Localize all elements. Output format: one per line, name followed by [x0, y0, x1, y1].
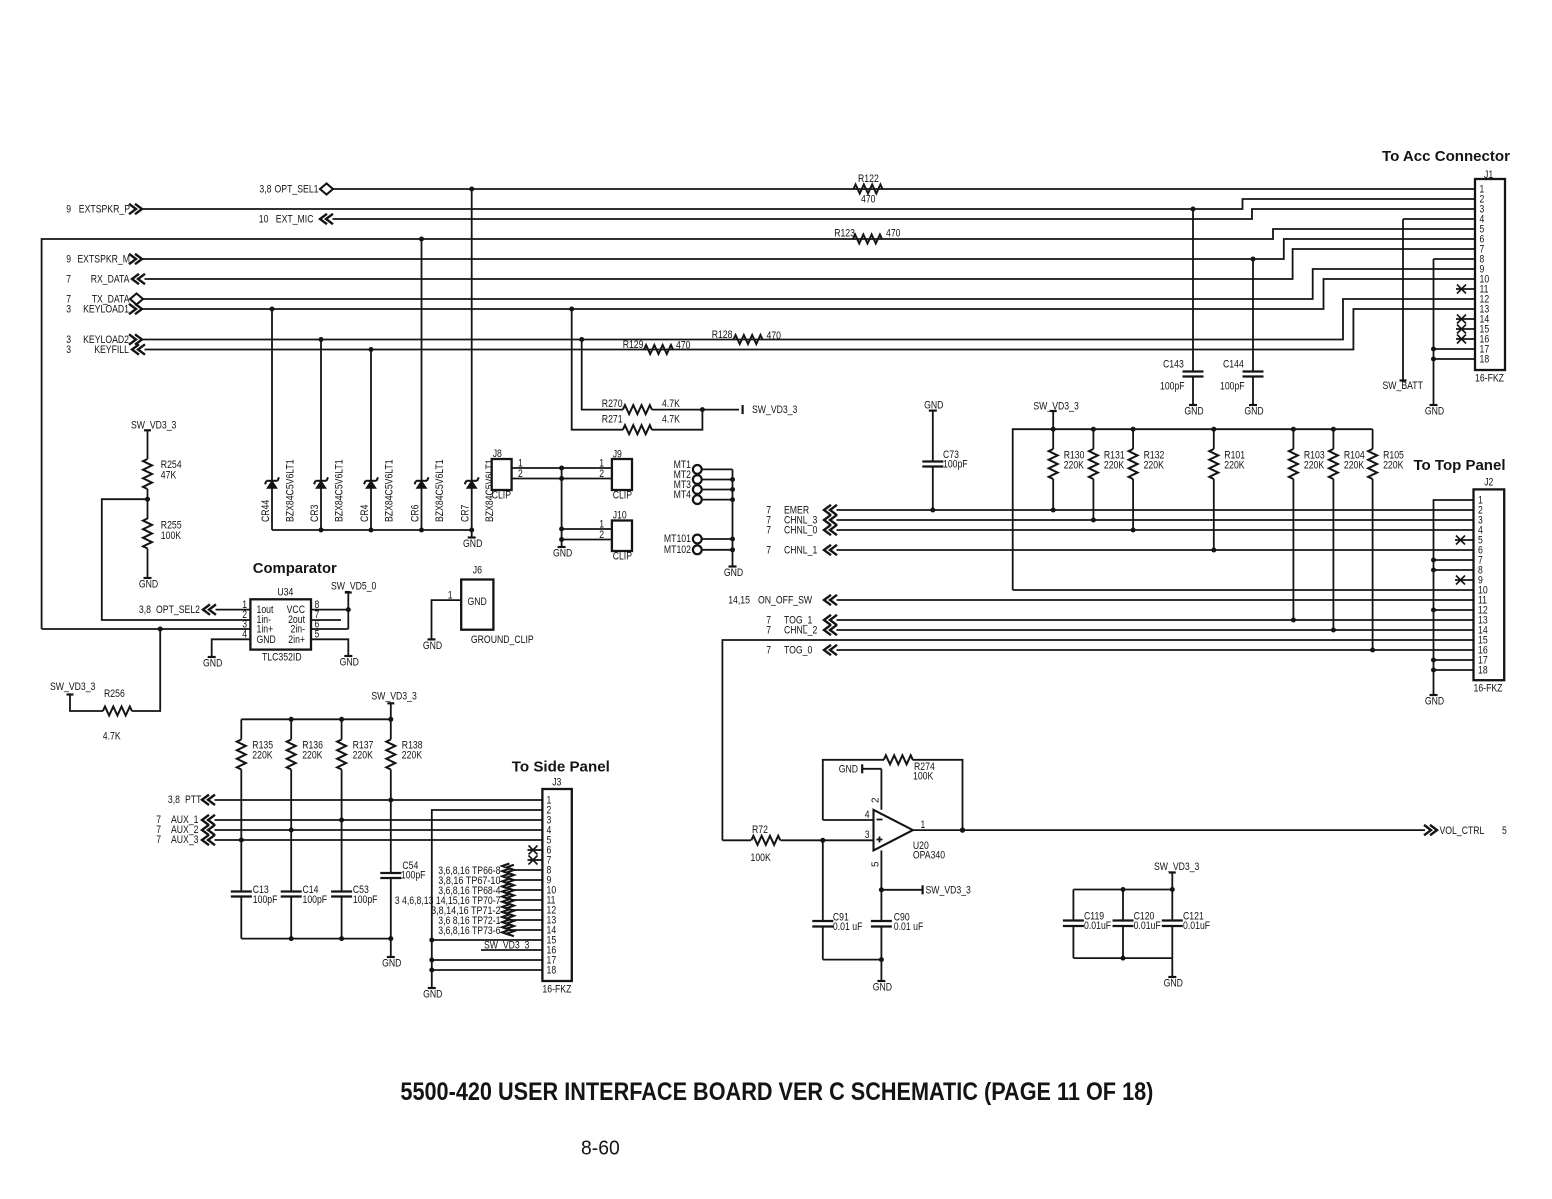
svg-text:J6: J6 — [473, 565, 482, 577]
connector J3 pins 2,15,17,18 ground rail — [432, 810, 543, 988]
svg-text:CR4: CR4 — [359, 505, 371, 522]
wire OPT_SEL2 box-route to J1 pin 5 — [42, 229, 1475, 629]
svg-text:GND: GND — [340, 657, 360, 669]
junction R131 output — [1091, 518, 1096, 523]
svg-text:100pF: 100pF — [303, 894, 328, 906]
svg-text:100pF: 100pF — [1220, 381, 1245, 393]
resistor R270 — [582, 340, 623, 410]
svg-text:220K: 220K — [1064, 460, 1084, 472]
svg-text:9: 9 — [66, 204, 71, 216]
svg-text:14,15: 14,15 — [728, 595, 750, 607]
connector J6 GROUND_CLIP — [461, 580, 493, 630]
junction MT3 — [730, 487, 735, 492]
wire C119-C121 top bus — [1073, 889, 1172, 891]
junction J2 pin 8 — [1431, 568, 1436, 573]
junction R104 output — [1331, 628, 1336, 633]
junction KEYLOAD2 / CR3 — [319, 337, 324, 342]
junction C53 bus — [339, 936, 344, 941]
wire R255 to ground — [147, 549, 149, 579]
junction EXTSPKR_M / C144 — [1251, 257, 1256, 262]
wire U20 output to VOL_CTRL — [913, 829, 1425, 831]
wire MT1 — [702, 468, 733, 470]
svg-text:220K: 220K — [1104, 460, 1124, 472]
svg-text:CR44: CR44 — [260, 500, 272, 522]
svg-text:R256: R256 — [104, 688, 125, 700]
wire OPT_SEL2 to U34 pin 1 — [216, 609, 251, 611]
connector J8 CLIP — [492, 459, 512, 490]
mount hole MT1 — [693, 465, 702, 474]
svg-text:100pF: 100pF — [401, 870, 426, 882]
wire divider tap to U34 pin 2 — [102, 499, 251, 620]
junction C14 bus — [289, 936, 294, 941]
svg-text:3: 3 — [66, 344, 71, 356]
wire AUX_2 to J3 pin 4 — [215, 829, 543, 831]
wire U34 pin 3 input — [42, 628, 251, 630]
svg-text:220K: 220K — [1224, 460, 1244, 472]
junction bus R131 — [1091, 427, 1096, 432]
svg-text:Comparator: Comparator — [253, 561, 337, 577]
svg-text:SW_VD3_3: SW_VD3_3 — [1154, 861, 1199, 873]
resistor R132 220K — [1132, 429, 1134, 449]
svg-text:EXT_MIC: EXT_MIC — [276, 214, 314, 226]
svg-text:C143: C143 — [1163, 359, 1184, 371]
wire decoupling bottom — [823, 959, 882, 961]
junction MT101 — [730, 537, 735, 542]
wire C119-C121 bottom bus — [1073, 957, 1172, 959]
ground at C144 — [1249, 404, 1257, 406]
wire U34 pin 5 to ground — [311, 639, 348, 656]
svg-text:0.01uF: 0.01uF — [1183, 920, 1211, 932]
svg-text:ON_OFF_SW: ON_OFF_SW — [758, 595, 812, 607]
svg-text:100pF: 100pF — [943, 459, 968, 471]
wire J8 pin 1 to J9 pin 1 — [512, 467, 612, 469]
svg-text:TLC352ID: TLC352ID — [262, 652, 302, 664]
svg-text:GND: GND — [724, 567, 744, 579]
svg-text:3: 3 — [865, 829, 870, 841]
junction R135 output — [239, 838, 244, 843]
junction J1 pin 18 — [1431, 357, 1436, 362]
junction OPT_SEL2 / CR6 — [419, 237, 424, 242]
junction J2 pin 18 — [1431, 668, 1436, 673]
svg-text:J2: J2 — [1484, 477, 1493, 489]
wire VOL wiper J2 pin 15 to R72 — [722, 640, 1473, 840]
svg-text:220K: 220K — [1383, 460, 1403, 472]
no-connect J2 pin 5 — [1455, 539, 1474, 541]
svg-text:47K: 47K — [161, 470, 177, 482]
svg-text:220K: 220K — [302, 750, 322, 762]
junction J2 pin 17 — [1431, 658, 1436, 663]
svg-text:0.01 uF: 0.01 uF — [894, 921, 924, 933]
junction bus R132 — [1131, 427, 1136, 432]
svg-text:GND: GND — [1425, 696, 1445, 708]
wire feedback R274 loop — [823, 760, 884, 820]
ground at J3 — [428, 987, 436, 989]
junction top bus C121 — [1170, 887, 1175, 892]
junction J3 pin 18 — [429, 968, 434, 973]
junction clip ground pin2 — [559, 476, 564, 481]
svg-text:GND: GND — [553, 548, 573, 560]
wire KEYLOAD2 to J1 pin 12 — [142, 299, 1475, 340]
svg-text:CR7: CR7 — [460, 505, 472, 522]
junction R130 output — [1051, 508, 1056, 513]
wire RX_DATA to J1 pin 7 — [145, 249, 1476, 279]
svg-text:3,6,8,16 TP73-6: 3,6,8,16 TP73-6 — [438, 925, 500, 937]
svg-text:GND: GND — [257, 634, 277, 646]
resistor R135 220K — [240, 719, 242, 739]
no-connect J1 pin 11 — [1456, 288, 1475, 290]
svg-text:7: 7 — [766, 525, 771, 537]
junction OPT_SEL1 / CR7 — [469, 187, 474, 192]
zener diode CR6 BZX84C5V6LT1 — [421, 239, 423, 530]
svg-text:J10: J10 — [613, 510, 627, 522]
svg-text:GND: GND — [1244, 406, 1264, 418]
svg-text:3,8: 3,8 — [259, 184, 271, 196]
junction J10 pin 1 — [559, 527, 564, 532]
svg-text:GND: GND — [463, 538, 483, 550]
svg-text:R271: R271 — [602, 413, 623, 425]
svg-text:R129: R129 — [623, 339, 644, 351]
svg-text:EXTSPKR_P: EXTSPKR_P — [79, 204, 130, 216]
svg-text:R270: R270 — [602, 398, 623, 410]
test point resistor squiggle column — [502, 864, 509, 935]
svg-text:R122: R122 — [858, 173, 879, 185]
svg-text:R123: R123 — [834, 228, 855, 240]
svg-text:KEYFILL: KEYFILL — [94, 344, 129, 356]
svg-text:470: 470 — [676, 340, 691, 352]
ground at J6 — [428, 638, 436, 640]
junction CR6 bus — [419, 528, 424, 533]
junction KEYLOAD2 / R270 — [579, 337, 584, 342]
svg-text:8-60: 8-60 — [581, 1138, 620, 1160]
svg-text:BZX84C5V6LT1: BZX84C5V6LT1 — [434, 459, 446, 522]
wire capacitor bottom bus — [241, 938, 390, 940]
svg-text:GND: GND — [423, 989, 443, 1001]
ground at C90/C91 — [877, 980, 885, 982]
junction J3 pin 15 — [429, 938, 434, 943]
svg-text:GND: GND — [873, 982, 893, 994]
wire MT102 — [702, 549, 733, 551]
svg-text:0.01 uF: 0.01 uF — [833, 921, 863, 933]
svg-text:J1: J1 — [1484, 169, 1493, 181]
wire diode common bus — [272, 529, 472, 531]
no-connect J3 pin 6 — [528, 849, 543, 851]
ground at C143 — [1189, 404, 1197, 406]
svg-text:220K: 220K — [1144, 460, 1164, 472]
junction J2 pin 12 — [1431, 608, 1436, 613]
connector J1 pin 4 stub / SW_BATT — [1403, 218, 1475, 220]
ground at MT rail — [729, 565, 737, 567]
svg-text:R72: R72 — [752, 824, 768, 836]
svg-text:4.7K: 4.7K — [662, 398, 680, 410]
wire CHNL_0 to J2 pin 4 — [837, 529, 1474, 531]
junction bus R137 — [339, 717, 344, 722]
junction pin5 / SW_VD3_3 tap — [879, 887, 884, 892]
no-connect J2 pin 9 — [1455, 579, 1474, 581]
svg-text:VOL_CTRL: VOL_CTRL — [1440, 825, 1485, 837]
ground at clip rail — [558, 546, 566, 548]
junction C73 / EMER — [930, 508, 935, 513]
svg-text:To Acc Connector: To Acc Connector — [1382, 149, 1510, 165]
wire J10 pin 2 — [562, 539, 612, 541]
junction bottom bus C120 — [1121, 956, 1126, 961]
svg-text:BZX84C5V6LT1: BZX84C5V6LT1 — [285, 459, 297, 522]
connector J9 CLIP — [612, 459, 632, 490]
svg-text:SW_VD5_0: SW_VD5_0 — [331, 581, 376, 593]
wire EXTSPKR_P to J1 pin 2 — [142, 199, 1475, 209]
junction U34 pin3 / R256 — [158, 627, 163, 632]
ground at C121 — [1168, 976, 1176, 978]
resistor R129 — [644, 345, 673, 354]
junction J10 pin 2 — [559, 537, 564, 542]
wire clip ground rail — [561, 468, 563, 547]
capacitor C121 — [1171, 890, 1173, 921]
op-amp U20 OPA340 — [874, 810, 913, 851]
wire PTT to J3 pin 1 — [215, 799, 543, 801]
no-connect J3 pin 7 — [528, 859, 543, 861]
svg-text:16-FKZ: 16-FKZ — [542, 984, 571, 996]
junction bus R101 — [1211, 427, 1216, 432]
svg-text:220K: 220K — [1304, 460, 1324, 472]
junction R105 output — [1370, 648, 1375, 653]
junction MT4 — [730, 497, 735, 502]
wire EMER to J2 pin 2 — [837, 509, 1474, 511]
resistor R105 220K — [1372, 429, 1374, 449]
resistor R104 220K — [1332, 429, 1334, 449]
svg-text:7: 7 — [766, 545, 771, 557]
wire U34 pin 6 — [311, 628, 348, 630]
junction R132 output — [1131, 528, 1136, 533]
svg-text:GND: GND — [839, 763, 859, 775]
svg-text:EXTSPKR_M: EXTSPKR_M — [77, 254, 130, 266]
wire CHNL_3 to J2 pin 3 — [837, 519, 1474, 521]
svg-text:SW_BATT: SW_BATT — [1383, 380, 1424, 392]
svg-text:4: 4 — [865, 809, 870, 821]
svg-text:RX_DATA: RX_DATA — [91, 274, 131, 286]
mount hole MT4 — [693, 495, 702, 504]
resistor R72 — [722, 839, 751, 841]
net label VOL_CTRL — [1430, 825, 1437, 835]
junction R101 output — [1211, 548, 1216, 553]
wire R72 to U20 +input — [823, 839, 874, 841]
resistor R103 220K — [1292, 429, 1294, 449]
svg-text:SW_VD3_3: SW_VD3_3 — [131, 419, 176, 431]
svg-text:220K: 220K — [252, 750, 272, 762]
wire J3 pin 16 SW_VD3_3 stub — [481, 949, 542, 951]
wire EXT_MIC to J1 pin 3 — [333, 209, 1476, 219]
mount hole MT2 — [693, 475, 702, 484]
svg-text:16-FKZ: 16-FKZ — [1475, 373, 1504, 385]
svg-text:9: 9 — [66, 254, 71, 266]
svg-text:GND: GND — [468, 596, 488, 608]
junction clip ground pin1 — [559, 466, 564, 471]
svg-text:CLIP: CLIP — [492, 490, 511, 502]
svg-text:0.01uF: 0.01uF — [1134, 920, 1162, 932]
svg-text:CHNL_2: CHNL_2 — [784, 625, 817, 637]
svg-text:100K: 100K — [161, 530, 181, 542]
svg-text:3,8: 3,8 — [168, 794, 180, 806]
svg-text:CLIP: CLIP — [613, 490, 632, 502]
connector J2 pins 1,7,8,12,17,18 ground rail — [1434, 500, 1474, 695]
junction CR4 bus — [369, 528, 374, 533]
no-connect J1 pin 15 — [1456, 328, 1475, 330]
junction R254/R255 — [145, 497, 150, 502]
svg-text:100K: 100K — [913, 771, 933, 783]
capacitor C90 — [880, 890, 882, 921]
zener diode CR44 BZX84C5V6LT1 — [271, 309, 273, 530]
svg-text:GND: GND — [139, 579, 159, 591]
svg-text:C144: C144 — [1223, 359, 1244, 371]
junction bus / SW_VD3_3 — [1051, 427, 1056, 432]
capacitor C120 — [1122, 890, 1124, 921]
wire pull-up bus SW_VD3_3 — [1013, 589, 1474, 591]
junction J2 pin 7 — [1431, 558, 1436, 563]
junction bus R136 — [289, 717, 294, 722]
connector J1 pins 8,17,18 ground wire — [1434, 258, 1476, 260]
svg-text:GND: GND — [203, 658, 223, 670]
resistor R274 100K — [884, 755, 913, 764]
capacitor C91 — [822, 840, 824, 921]
svg-text:3: 3 — [66, 304, 71, 316]
junction KEYLOAD1 / R271 — [569, 307, 574, 312]
svg-text:0.01uF: 0.01uF — [1084, 920, 1112, 932]
wire U20 pin 4 inverting input — [823, 819, 874, 821]
wire AUX_1 to J3 pin 3 — [215, 819, 543, 821]
ground at U34 pin 5 — [344, 655, 352, 657]
junction R103 output — [1291, 618, 1296, 623]
wire MT3 — [702, 489, 733, 491]
resistor R256 — [70, 695, 103, 712]
svg-text:100pF: 100pF — [353, 894, 378, 906]
svg-text:CHNL_0: CHNL_0 — [784, 525, 817, 537]
junction U20 output / feedback — [960, 827, 965, 832]
resistor R131 220K — [1092, 429, 1094, 449]
wire U34 pin 4 to ground — [212, 639, 251, 657]
junction J1 pin 17 — [1431, 347, 1436, 352]
resistor R101 220K — [1213, 429, 1215, 449]
junction CR7 bus — [469, 528, 474, 533]
svg-text:2in+: 2in+ — [288, 634, 305, 646]
svg-text:7: 7 — [156, 834, 161, 846]
wire MT2 — [702, 479, 733, 481]
mount hole MT102 — [693, 545, 702, 554]
svg-text:GND: GND — [1184, 406, 1204, 418]
svg-text:OPT_SEL2: OPT_SEL2 — [156, 604, 200, 616]
svg-text:2: 2 — [871, 797, 882, 803]
svg-text:AUX_3: AUX_3 — [171, 834, 199, 846]
resistor R138 220K — [390, 719, 392, 739]
wire ON_OFF_SW to J2 pin 11 — [837, 599, 1474, 601]
svg-text:To Top Panel: To Top Panel — [1414, 458, 1506, 474]
junction EXTSPKR_P / C143 — [1191, 207, 1196, 212]
svg-text:J8: J8 — [493, 448, 502, 460]
svg-text:KEYLOAD1: KEYLOAD1 — [83, 304, 129, 316]
no-connect J1 pin 16 — [1456, 338, 1475, 340]
svg-text:4.7K: 4.7K — [103, 731, 121, 743]
resistor R123 — [853, 235, 882, 244]
svg-text:GND: GND — [423, 640, 443, 652]
wire U34 pin 8 — [311, 609, 348, 611]
svg-text:J3: J3 — [552, 777, 561, 789]
mount hole MT101 — [693, 535, 702, 544]
junction J3 pin 17 — [429, 958, 434, 963]
power SW_VD3_3 tap at U20 pin 5 — [881, 889, 922, 891]
zener diode CR7 BZX84C5V6LT1 — [471, 189, 473, 530]
junction U34 pin 8 / SW_VD5_0 — [346, 607, 351, 612]
junction MT2 — [730, 477, 735, 482]
capacitor C144 — [1252, 259, 1254, 372]
wire MT ground rail — [732, 469, 734, 566]
wire J6 pin 1 — [432, 600, 462, 639]
zener diode CR4 BZX84C5V6LT1 — [370, 350, 372, 531]
resistor R128 — [734, 335, 763, 344]
resistor R271 — [572, 309, 623, 430]
svg-text:SW_VD3_3: SW_VD3_3 — [50, 681, 95, 693]
svg-text:GND: GND — [382, 958, 402, 970]
junction bus R104 — [1331, 427, 1336, 432]
wire MT4 — [702, 499, 733, 501]
svg-text:SW_VD3_3: SW_VD3_3 — [371, 691, 416, 703]
wire TOG_0 to J2 pin 16 — [837, 649, 1474, 651]
ground at capacitor bus — [387, 956, 395, 958]
svg-text:18: 18 — [547, 965, 557, 977]
ground at R255 — [144, 577, 152, 579]
wire OPT_SEL1 to J1 pin 1 — [333, 188, 1475, 190]
mount hole MT3 — [693, 485, 702, 494]
resistor R254 — [143, 459, 152, 489]
svg-text:GROUND_CLIP: GROUND_CLIP — [471, 634, 534, 646]
connector J3 — [542, 789, 571, 981]
wire U20 pin 5 — [880, 850, 882, 889]
wire KEYLOAD1 to J1 pin 10 — [142, 279, 1475, 309]
junction C90 bottom — [879, 957, 884, 962]
capacitor C73 — [932, 411, 934, 462]
junction CR3 bus — [319, 528, 324, 533]
wire bus to ground — [390, 939, 392, 957]
capacitor C13 — [240, 840, 242, 892]
svg-text:5: 5 — [1502, 825, 1507, 837]
svg-text:220K: 220K — [402, 750, 422, 762]
svg-text:18: 18 — [1480, 354, 1490, 366]
svg-text:470: 470 — [886, 228, 901, 240]
svg-text:CHNL_1: CHNL_1 — [784, 545, 817, 557]
resistor R122 — [854, 185, 883, 194]
resistor R136 220K — [290, 719, 292, 739]
resistor R255 — [143, 519, 152, 549]
capacitor C54 — [390, 800, 392, 873]
svg-text:To Side Panel: To Side Panel — [512, 760, 610, 776]
svg-text:GND: GND — [1164, 978, 1184, 990]
connector J10 CLIP — [612, 521, 632, 552]
svg-text:100pF: 100pF — [253, 894, 278, 906]
svg-text:GND: GND — [1425, 406, 1445, 418]
capacitor C14 — [290, 830, 292, 892]
power SW_VD3_3 tap at R270 — [741, 405, 743, 414]
wire MT101 — [702, 538, 733, 540]
wire to ground below C121 — [1171, 958, 1173, 977]
svg-text:18: 18 — [1478, 665, 1488, 677]
connector J1 — [1475, 179, 1505, 370]
svg-text:MT4: MT4 — [674, 489, 691, 501]
svg-text:220K: 220K — [1344, 460, 1364, 472]
wire J10 pin 1 — [562, 528, 612, 530]
junction R137 output — [339, 818, 344, 823]
wire to ground below C90 — [880, 960, 882, 981]
svg-text:5: 5 — [871, 861, 882, 867]
comparator U34 TLC352ID — [250, 599, 311, 649]
svg-text:5500-420 USER INTERFACE BOARD: 5500-420 USER INTERFACE BOARD VER C SCHE… — [400, 1078, 1153, 1106]
no-connect J1 pin 14 — [1456, 318, 1475, 320]
svg-text:SW_VD3_3: SW_VD3_3 — [484, 940, 529, 952]
